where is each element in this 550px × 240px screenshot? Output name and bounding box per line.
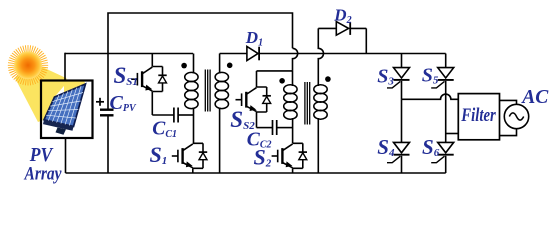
thyristor S4	[387, 99, 410, 173]
sun beam	[15, 65, 67, 123]
wire: pv top lead	[64, 53, 66, 81]
svg-text:AC: AC	[520, 87, 549, 108]
transformer T1 core	[205, 70, 210, 112]
plus sign	[96, 98, 104, 106]
ac source wires	[500, 100, 517, 104]
transformer T1 secondary winding	[215, 72, 228, 108]
T2 polarity dot left	[279, 78, 285, 84]
capacitor CPV	[100, 54, 114, 174]
transformer T2 primary winding	[284, 85, 297, 120]
svg-text:Array: Array	[24, 165, 62, 185]
thyristor S3	[387, 54, 410, 100]
thyristor S6	[431, 134, 454, 174]
riser with hop at x=292.5	[293, 48, 298, 71]
capacitor CC1	[152, 108, 193, 123]
diode D1	[220, 47, 446, 61]
transformer T2 secondary bottom lead	[317, 118, 319, 173]
wire: top rail	[108, 13, 293, 54]
filter box	[458, 94, 499, 140]
T2 polarity dot right	[325, 76, 331, 82]
bridge lower mid wire	[446, 133, 459, 135]
wire: pv bottom lead	[65, 138, 67, 173]
transformer T1 primary lead / junction to S1	[193, 54, 195, 74]
ac source	[504, 104, 528, 128]
PV array box	[41, 81, 93, 139]
T1 polarity dot left	[181, 63, 187, 69]
diode D2	[318, 22, 366, 54]
transformer T1 secondary leads	[219, 54, 221, 74]
svg-text:Filter: Filter	[461, 105, 497, 126]
transformer T2 primary leads	[292, 71, 294, 86]
switch S1	[172, 143, 207, 173]
switch S2	[272, 143, 307, 173]
bridge mid wire with hop	[402, 94, 459, 99]
wire: left dc rail	[65, 53, 193, 55]
transformer T2 core	[305, 82, 310, 125]
PV panel	[43, 84, 86, 135]
svg-text:PV: PV	[29, 144, 54, 166]
transformer T2 secondary winding	[314, 85, 327, 120]
label PV Array	[24, 144, 62, 185]
transformer T2 secondary top lead with hop	[318, 28, 323, 86]
capacitor CC2	[257, 120, 293, 135]
thyristor S5	[431, 54, 454, 134]
T1 polarity dot right	[227, 63, 233, 69]
sun	[8, 45, 48, 85]
switch SS2	[236, 71, 293, 128]
transformer T1 primary winding	[185, 72, 198, 108]
switch SS1	[131, 54, 166, 116]
wire: bottom rail	[66, 172, 446, 174]
